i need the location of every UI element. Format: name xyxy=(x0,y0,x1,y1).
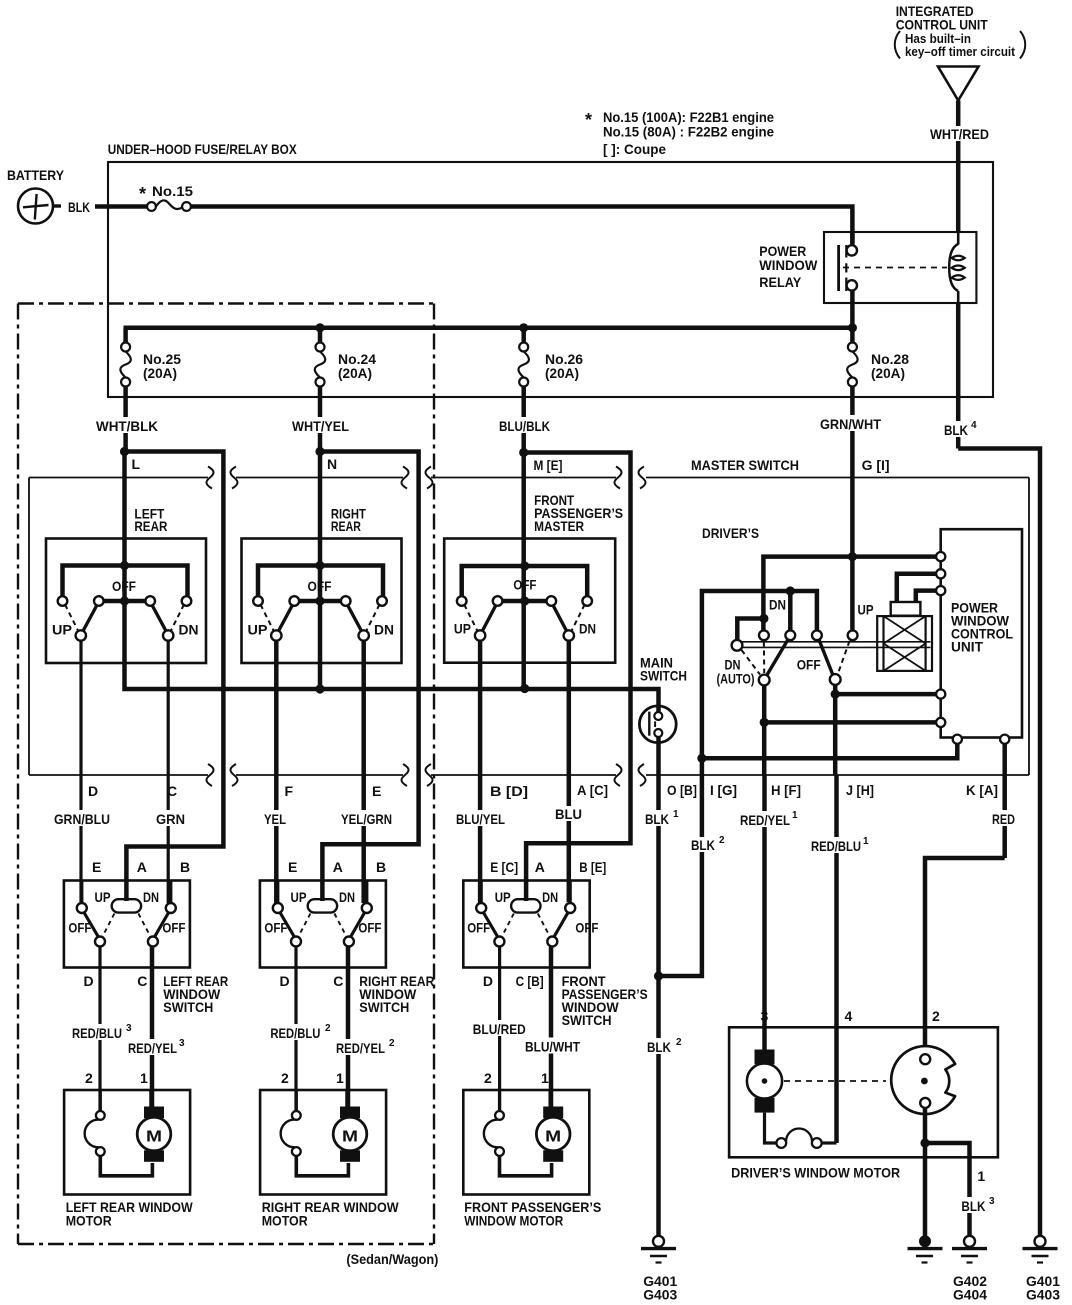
svg-text:E: E xyxy=(92,859,101,875)
wire DN link horizontal xyxy=(702,586,817,756)
svg-text:1: 1 xyxy=(792,810,798,821)
svg-text:2: 2 xyxy=(85,1070,93,1086)
svg-text:MOTOR: MOTOR xyxy=(262,1213,308,1229)
svg-text:G403: G403 xyxy=(1026,1287,1060,1303)
svg-text:2: 2 xyxy=(281,1070,289,1086)
svg-text:DRIVER’S: DRIVER’S xyxy=(702,525,759,541)
wire WHT/BLK xyxy=(94,397,160,449)
svg-text:M: M xyxy=(146,1129,162,1146)
svg-text:3: 3 xyxy=(179,1038,185,1049)
svg-text:OFF: OFF xyxy=(797,657,821,673)
drive solenoid cap xyxy=(891,574,941,616)
svg-text:RELAY: RELAY xyxy=(759,274,802,290)
power window relay xyxy=(759,232,976,303)
driver's switch contact 1 xyxy=(759,630,769,640)
svg-text:YEL: YEL xyxy=(264,811,286,827)
svg-text:BLU/YEL: BLU/YEL xyxy=(456,811,505,827)
svg-text:H [F]: H [F] xyxy=(771,782,801,798)
fuse No.24 (20A) xyxy=(315,331,376,397)
svg-text:1: 1 xyxy=(977,1168,985,1184)
wire RED/YEL 3 xyxy=(126,947,188,1107)
svg-text:BLU/RED: BLU/RED xyxy=(473,1021,526,1037)
svg-text:G [I]: G [I] xyxy=(862,457,890,473)
wire RED/BLU 2 xyxy=(268,947,338,1113)
svg-text:1: 1 xyxy=(140,1070,148,1086)
wire YEL xyxy=(262,641,288,904)
svg-text:OFF: OFF xyxy=(308,578,332,594)
svg-text:*: * xyxy=(139,184,146,204)
driver's switch arm solid OFF xyxy=(819,640,833,676)
svg-text:OFF: OFF xyxy=(112,578,136,594)
driver's switch DN(AUTO) contact xyxy=(759,675,770,686)
svg-text:BLK: BLK xyxy=(645,811,669,827)
wire RED to driver's motor xyxy=(925,775,1019,1055)
svg-text:No.15 (80A) : F22B2 engine: No.15 (80A) : F22B2 engine xyxy=(603,124,774,140)
svg-text:YEL/GRN: YEL/GRN xyxy=(341,811,392,827)
ground G401 G403 right xyxy=(1023,1236,1061,1303)
junction front passenger center to bus xyxy=(520,684,529,693)
battery xyxy=(18,189,61,224)
wire RED/YEL 1 xyxy=(738,775,800,1050)
wire DN(AUTO) to control unit and H connector xyxy=(760,685,936,775)
svg-text:OFF: OFF xyxy=(68,920,91,936)
wire WHT/RED xyxy=(928,101,991,233)
svg-text:1: 1 xyxy=(336,1070,344,1086)
right rear window motor xyxy=(260,1070,399,1229)
svg-text:SWITCH: SWITCH xyxy=(562,1012,612,1028)
svg-text:(Sedan/Wagon): (Sedan/Wagon) xyxy=(346,1251,438,1267)
control unit bottom terminal I xyxy=(953,735,962,744)
fuse bus wire xyxy=(124,326,853,331)
wire BLU xyxy=(553,641,584,903)
svg-text:OFF: OFF xyxy=(467,920,490,936)
svg-text:UNIT: UNIT xyxy=(951,639,983,655)
wire commutator to grounds xyxy=(920,1108,997,1236)
svg-text:A: A xyxy=(535,859,545,875)
right rear master section xyxy=(242,447,402,663)
svg-text:(20A): (20A) xyxy=(545,365,579,381)
svg-text:D: D xyxy=(280,973,290,989)
wire from relay contact to fuse bus xyxy=(850,303,855,325)
svg-text:RED/YEL: RED/YEL xyxy=(336,1040,385,1056)
svg-text:RED/YEL: RED/YEL xyxy=(740,812,790,828)
svg-text:2: 2 xyxy=(676,1037,682,1048)
svg-text:M [E]: M [E] xyxy=(534,457,563,473)
svg-text:GRN: GRN xyxy=(156,811,185,827)
wire RED/BLU 1 xyxy=(809,775,871,1027)
svg-text:3: 3 xyxy=(126,1023,132,1034)
junction BLK ground wires xyxy=(654,971,663,980)
svg-text:No.15: No.15 xyxy=(152,183,193,199)
svg-text:BLU/WHT: BLU/WHT xyxy=(525,1039,580,1055)
svg-text:UP: UP xyxy=(52,622,72,638)
driver's switch OFF contact xyxy=(830,674,841,685)
svg-text:OFF: OFF xyxy=(162,920,185,936)
master switch box break marks xyxy=(206,467,645,787)
junction BLU/BLK at front passenger master switch xyxy=(519,448,528,457)
wire motor brush to connector bump xyxy=(765,1027,837,1148)
main switch xyxy=(639,655,687,743)
front passenger window switch xyxy=(463,859,647,1028)
svg-text:B [D]: B [D] xyxy=(490,783,528,799)
svg-text:BLK: BLK xyxy=(68,199,90,215)
left rear window motor xyxy=(64,1070,193,1229)
svg-text:F: F xyxy=(285,783,294,799)
wire GRN xyxy=(154,641,187,904)
svg-text:UP: UP xyxy=(495,889,511,905)
fuse No.15 xyxy=(139,183,193,211)
svg-text:BLK: BLK xyxy=(691,837,715,853)
ground G402 G404 xyxy=(952,1236,987,1303)
svg-text:1: 1 xyxy=(863,836,869,847)
svg-text:C [B]: C [B] xyxy=(516,973,544,989)
control unit terminal 2 xyxy=(936,569,945,578)
svg-text:A: A xyxy=(137,859,147,875)
svg-text:C: C xyxy=(333,973,343,989)
svg-text:DRIVER’S WINDOW MOTOR: DRIVER’S WINDOW MOTOR xyxy=(731,1165,900,1181)
driver's switch dashed arm pivot to DN(AUTO) xyxy=(742,650,761,675)
svg-text:2: 2 xyxy=(719,835,725,846)
svg-text:A: A xyxy=(333,859,343,875)
junction fuse No.26 xyxy=(519,323,528,332)
wire GRN/BLU xyxy=(52,641,112,904)
connector triangle to integrated control unit xyxy=(938,67,979,101)
driver's switch contact 2 xyxy=(785,630,795,640)
svg-text:C: C xyxy=(137,973,147,989)
svg-text:UNDER–HOOD FUSE/RELAY BOX: UNDER–HOOD FUSE/RELAY BOX xyxy=(108,141,298,157)
svg-text:D: D xyxy=(483,973,493,989)
driver's switch contact 3 xyxy=(812,630,822,640)
relay contact xyxy=(839,232,857,303)
svg-text:WHT/YEL: WHT/YEL xyxy=(292,418,349,434)
wire GRN/WHT xyxy=(818,397,883,554)
wire GRN/WHT to driver's UP contact xyxy=(850,554,855,631)
fuse No.25 (20A) xyxy=(120,340,181,397)
svg-text:DN: DN xyxy=(143,889,159,905)
svg-text:M: M xyxy=(342,1129,358,1146)
driver's switch pivot xyxy=(732,640,743,651)
junction WHT/YEL at right rear switch xyxy=(315,447,324,456)
svg-text:D: D xyxy=(84,973,94,989)
driver's switch arm solid DN(AUTO) xyxy=(767,640,789,676)
wire RED/YEL 2 xyxy=(334,947,398,1107)
junction fuse No.24 xyxy=(315,323,324,332)
connector labels row xyxy=(88,782,998,799)
relay coil xyxy=(949,232,965,303)
svg-text:UP: UP xyxy=(95,889,111,905)
svg-text:DN: DN xyxy=(542,889,558,905)
svg-text:[ ]: Coupe: [ ]: Coupe xyxy=(603,141,666,157)
under-hood fuse/relay box xyxy=(108,141,993,397)
control unit bottom terminal K xyxy=(1000,735,1009,744)
fuse No.26 (20A) xyxy=(518,331,583,397)
junction relay-to-bus xyxy=(848,323,857,332)
svg-text:RED/YEL: RED/YEL xyxy=(128,1040,177,1056)
svg-text:(20A): (20A) xyxy=(143,365,177,381)
left rear window switch xyxy=(64,859,228,1015)
wire from fuse No.15 to power window relay xyxy=(191,207,852,244)
svg-text:K [A]: K [A] xyxy=(966,782,998,798)
wire YEL/GRN xyxy=(339,641,394,904)
svg-text:G404: G404 xyxy=(953,1287,987,1303)
svg-text:WHT/BLK: WHT/BLK xyxy=(96,418,158,434)
svg-text:B [E]: B [E] xyxy=(579,859,606,875)
wire right rear A-terminal feed xyxy=(320,452,419,902)
svg-text:N: N xyxy=(327,456,337,472)
svg-text:GRN/WHT: GRN/WHT xyxy=(820,416,881,432)
svg-text:REAR: REAR xyxy=(331,518,361,534)
wire BLU/YEL xyxy=(454,641,507,904)
master switch box xyxy=(29,477,1029,479)
svg-text:(AUTO): (AUTO) xyxy=(717,671,755,687)
commutator disc xyxy=(891,1046,955,1114)
svg-text:2: 2 xyxy=(484,1070,492,1086)
wire BLK 1 from main switch to ground xyxy=(643,736,679,974)
svg-text:key–off timer circuit: key–off timer circuit xyxy=(905,44,1016,59)
junction GRN/WHT driver feed xyxy=(848,552,857,561)
control unit terminal 3 xyxy=(936,586,945,595)
wire BLU/WHT xyxy=(523,947,583,1107)
driver's switch bar xyxy=(742,642,931,648)
power window control unit xyxy=(941,529,1022,737)
wire I connector to control unit bottom xyxy=(697,744,957,775)
svg-text:OFF: OFF xyxy=(513,577,536,593)
svg-text:L: L xyxy=(132,456,141,472)
svg-text:1: 1 xyxy=(541,1070,549,1086)
svg-text:WHT/RED: WHT/RED xyxy=(930,126,989,142)
front passenger master section xyxy=(444,448,623,663)
svg-text:BLU/BLK: BLU/BLK xyxy=(499,418,550,434)
svg-text:RED/BLU: RED/BLU xyxy=(72,1025,122,1041)
svg-text:D: D xyxy=(88,783,98,799)
control unit terminal 5 xyxy=(936,718,945,727)
svg-text:3: 3 xyxy=(761,1008,769,1024)
svg-text:OFF: OFF xyxy=(575,920,598,936)
wire driver feed to control unit terminal 1 xyxy=(852,554,936,559)
control unit terminal 1 xyxy=(936,552,945,561)
wire front passenger A-terminal feed xyxy=(524,453,631,902)
svg-text:RED/BLU: RED/BLU xyxy=(811,838,861,854)
svg-text:UP: UP xyxy=(248,622,268,638)
svg-text:MASTER: MASTER xyxy=(534,518,584,534)
svg-text:UP: UP xyxy=(454,621,471,637)
wire WHT/YEL xyxy=(290,397,351,449)
svg-text:WINDOW: WINDOW xyxy=(759,257,818,273)
svg-text:4: 4 xyxy=(845,1008,853,1024)
svg-text:E: E xyxy=(288,859,297,875)
driver's switch contact UP xyxy=(848,630,858,640)
svg-text:GRN/BLU: GRN/BLU xyxy=(54,811,110,827)
svg-text:B: B xyxy=(376,859,386,875)
svg-text:RED: RED xyxy=(992,811,1015,827)
wire BLU/RED xyxy=(471,947,529,1113)
svg-text:DN: DN xyxy=(769,597,786,613)
dashed link motor to commutator xyxy=(784,1080,886,1082)
svg-text:1: 1 xyxy=(673,809,679,820)
wire OFF contact to control unit and J connector xyxy=(831,685,936,775)
right rear window switch xyxy=(260,859,434,1015)
svg-text:OFF: OFF xyxy=(358,920,381,936)
svg-text:*: * xyxy=(585,110,592,130)
svg-text:REAR: REAR xyxy=(134,518,167,534)
note: fuse and coupe variants xyxy=(585,109,774,157)
wire RED/BLU 3 xyxy=(70,947,140,1113)
svg-text:A [C]: A [C] xyxy=(577,782,608,798)
wire driver feed to bar pivot and contact 1 xyxy=(737,557,852,640)
svg-text:O [B]: O [B] xyxy=(667,782,697,798)
svg-text:RED/BLU: RED/BLU xyxy=(270,1025,320,1041)
svg-text:4: 4 xyxy=(971,420,977,431)
wire left rear A-terminal feed xyxy=(125,452,224,902)
svg-text:SWITCH: SWITCH xyxy=(640,668,687,684)
svg-text:DN: DN xyxy=(339,889,355,905)
svg-text:2: 2 xyxy=(389,1038,395,1049)
svg-text:I [G]: I [G] xyxy=(710,782,737,798)
left rear master section xyxy=(46,447,206,663)
svg-text:BLK: BLK xyxy=(944,422,968,438)
svg-text:E [C]: E [C] xyxy=(490,859,518,875)
svg-text:DN: DN xyxy=(579,621,596,637)
svg-text:(20A): (20A) xyxy=(871,365,905,381)
svg-text:UP: UP xyxy=(858,602,874,618)
ground G401 G403 left xyxy=(641,1236,677,1303)
front passenger window motor xyxy=(463,1070,601,1229)
drive unit crossed box xyxy=(877,616,932,671)
svg-text:M: M xyxy=(545,1129,561,1146)
driver's switch dashed arm UP to OFF xyxy=(838,641,850,674)
svg-text:MOTOR: MOTOR xyxy=(66,1213,112,1229)
svg-text:DN: DN xyxy=(374,622,394,638)
svg-text:UP: UP xyxy=(291,889,307,905)
wire BLU/BLK xyxy=(497,397,552,450)
svg-text:MASTER SWITCH: MASTER SWITCH xyxy=(691,457,799,473)
wire BLK battery feed xyxy=(68,199,147,215)
svg-text:BLK: BLK xyxy=(961,1198,985,1214)
wire BLK 4 to ground xyxy=(942,303,1040,1236)
svg-text:OFF: OFF xyxy=(264,920,287,936)
junction right rear center to bus xyxy=(315,684,324,693)
driver's switch dashed arm contact1 to DN(AUTO) xyxy=(763,642,765,674)
sedan/wagon boundary box xyxy=(18,304,438,1268)
relay actuation dashed link xyxy=(843,267,947,269)
svg-text:G403: G403 xyxy=(643,1287,677,1303)
power bus wire to main switch xyxy=(125,601,659,706)
ground driver motor (filled) xyxy=(908,1235,943,1262)
driver's window motor xyxy=(729,1008,998,1236)
svg-text:WINDOW MOTOR: WINDOW MOTOR xyxy=(464,1213,563,1229)
svg-text:2: 2 xyxy=(325,1023,331,1034)
svg-text:E: E xyxy=(372,783,381,799)
svg-text:BLK: BLK xyxy=(647,1039,671,1055)
svg-text:SWITCH: SWITCH xyxy=(163,999,213,1015)
svg-text:2: 2 xyxy=(932,1008,940,1024)
svg-text:SWITCH: SWITCH xyxy=(359,999,409,1015)
integrated control unit label xyxy=(895,3,1026,59)
svg-text:(20A): (20A) xyxy=(338,365,372,381)
svg-text:BLU: BLU xyxy=(555,806,582,822)
fuse No.28 (20A) xyxy=(847,331,909,397)
label DN (AUTO) xyxy=(717,657,755,687)
junction WHT/BLK at left rear switch xyxy=(120,447,129,456)
svg-text:3: 3 xyxy=(989,1196,995,1207)
svg-text:BATTERY: BATTERY xyxy=(7,167,65,183)
svg-text:DN: DN xyxy=(179,622,199,638)
svg-text:B: B xyxy=(180,859,190,875)
svg-text:J [H]: J [H] xyxy=(846,782,874,798)
wire K connector from control unit xyxy=(1002,744,1007,775)
wire BLK 2 to junction xyxy=(659,775,726,976)
control unit terminal 4 xyxy=(936,690,945,699)
